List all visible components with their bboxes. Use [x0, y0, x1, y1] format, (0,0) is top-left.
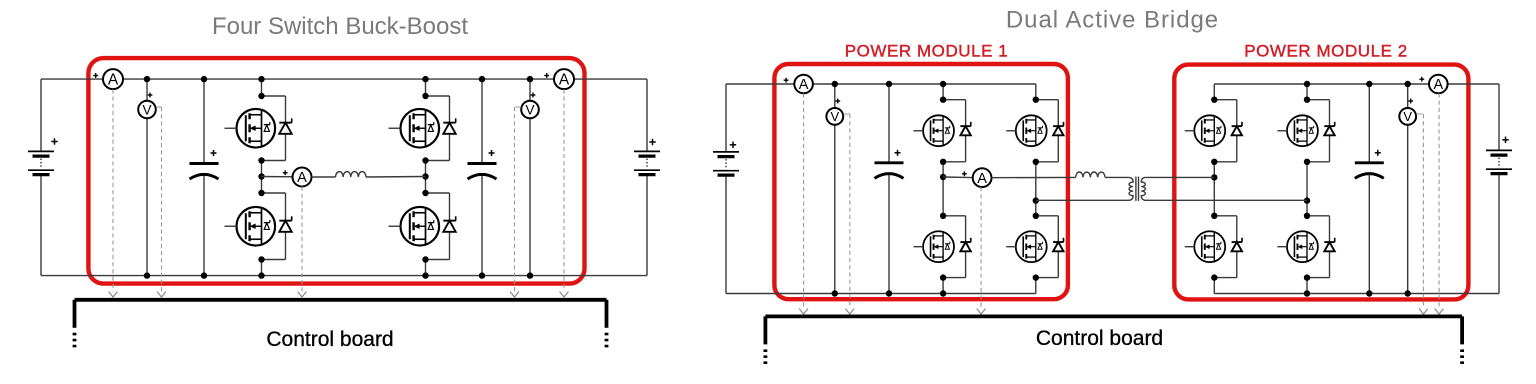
svg-text:V: V: [1403, 109, 1412, 124]
svg-text:A: A: [1433, 77, 1443, 93]
svg-text:Control board: Control board: [1036, 327, 1163, 350]
svg-text:A: A: [559, 72, 570, 89]
svg-text:POWER MODULE 1: POWER MODULE 1: [845, 42, 1009, 61]
svg-text:V: V: [142, 102, 151, 117]
svg-text:A: A: [297, 170, 307, 186]
svg-text:POWER MODULE 2: POWER MODULE 2: [1244, 41, 1408, 60]
svg-text:V: V: [830, 109, 839, 124]
svg-text:A: A: [977, 171, 987, 187]
svg-text:V: V: [525, 102, 534, 117]
svg-text:Control board: Control board: [266, 328, 393, 351]
svg-text:Four Switch Buck-Boost: Four Switch Buck-Boost: [212, 13, 468, 40]
svg-text:A: A: [108, 72, 119, 89]
svg-text:Dual Active Bridge: Dual Active Bridge: [1006, 7, 1219, 34]
svg-text:A: A: [799, 77, 809, 93]
